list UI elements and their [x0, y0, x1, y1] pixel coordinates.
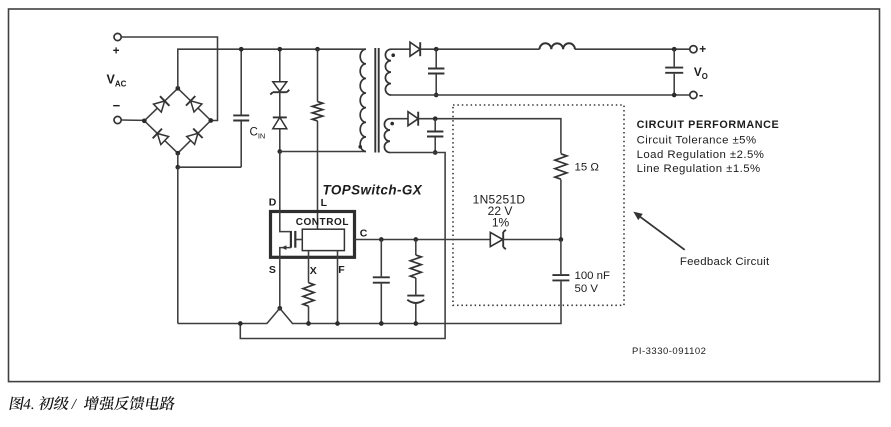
wire output cap1 top lead [435, 49, 437, 67]
label load regulation [637, 149, 765, 161]
wire CIN top lead [240, 49, 242, 114]
svg-text:1%: 1% [492, 215, 510, 229]
node output cap1 [434, 47, 439, 52]
diode bias rectifier [408, 112, 418, 126]
pin label C [360, 228, 368, 240]
transformer T1 bias winding [384, 119, 390, 153]
transformer bias phasing dot [390, 122, 394, 126]
label CIN [250, 127, 266, 141]
node C bypass cap [379, 237, 384, 242]
label Feedback Circuit [680, 256, 770, 268]
wire RC middle lead [415, 278, 417, 295]
label 15 ohm [575, 162, 600, 174]
wire MOSFET source lead [280, 248, 291, 259]
svg-text:L: L [321, 197, 328, 209]
node clamp at +DC rail [277, 47, 282, 52]
node Vo cap bottom [672, 93, 677, 98]
node bridge right [208, 118, 213, 123]
node RC at source rail [413, 321, 418, 326]
terminal AC - input [113, 98, 122, 124]
label VAC [107, 73, 127, 89]
transformer T1 primary winding [360, 49, 366, 151]
svg-text:15 Ω: 15 Ω [575, 162, 600, 174]
wire secondary top lead [391, 48, 410, 50]
wire bias winding bottom lead [390, 152, 435, 154]
wire L pin lead [317, 121, 319, 229]
label CIRCUIT PERFORMANCE [637, 119, 780, 131]
capacitor C-pin bypass [373, 277, 390, 282]
wire bias cap top lead [434, 119, 436, 131]
svg-text:VO: VO [694, 65, 708, 81]
wire return node to CIN bottom [178, 166, 241, 168]
wire AC+ to bridge right node [121, 37, 217, 121]
terminal Vo + [690, 42, 706, 56]
transformer T1 secondary winding [385, 49, 391, 95]
wire F pin lead [337, 251, 339, 324]
wire D pin lead [280, 152, 290, 232]
node bridge top [175, 86, 180, 91]
svg-text:CONTROL: CONTROL [296, 217, 349, 228]
transformer primary phasing dot [358, 145, 362, 149]
svg-text:X: X [310, 265, 317, 277]
wire clamp middle [279, 92, 281, 117]
label line regulation [637, 163, 761, 175]
label PI-3330-091102 [632, 346, 706, 357]
resistor X external current limit [303, 283, 314, 306]
pin label D [269, 196, 277, 208]
wire bridge top node to +DC rail [178, 49, 366, 88]
svg-text:Load Regulation ±2.5%: Load Regulation ±2.5% [637, 149, 765, 161]
pin label L [321, 197, 328, 209]
wire primary bottom stub [365, 151, 367, 153]
label TOPSwitch-GX [323, 183, 423, 198]
diode bridge D4 (bottom-right arm) [187, 129, 203, 145]
diode output rectifier [410, 42, 420, 56]
node bypass at source rail [379, 321, 384, 326]
wire CIN bottom lead [240, 121, 242, 167]
svg-text:TOPSwitch-GX: TOPSwitch-GX [323, 183, 423, 198]
wire MOSFET gate to control [296, 239, 302, 241]
wire clamp node to primary bottom [280, 151, 366, 153]
control block inner box [302, 229, 344, 250]
wire bias cap bottom lead [434, 137, 436, 152]
node return junction [175, 165, 180, 170]
diode clamp blocking [273, 117, 287, 128]
op-amp U1 TOPSwitch-GX body [271, 212, 355, 258]
label CONTROL [296, 217, 349, 228]
wire bias top lead [390, 118, 408, 120]
node bias cap bottom [433, 150, 438, 155]
node bias return at source rail [238, 321, 243, 326]
wire bridge bottom to lower node [177, 153, 179, 167]
wire bottom source rail left [178, 323, 268, 325]
capacitor 100nF 50V [552, 275, 569, 280]
caption figure title [9, 396, 176, 410]
wire 15ohm to node [560, 180, 562, 240]
wire Vo cap top lead [673, 49, 675, 66]
resistor RC snub [410, 255, 421, 278]
svg-text:−: − [113, 98, 121, 113]
wire bottom source rail right [292, 281, 561, 323]
capacitor CIN [233, 115, 249, 120]
wire output cap1 bottom lead [435, 74, 437, 95]
transistor Q1 MOSFET gate bar [294, 231, 296, 248]
wire bypass cap top lead [380, 240, 382, 277]
node C RC branch [413, 237, 418, 242]
svg-text:C: C [360, 228, 368, 240]
wire AC- to bridge left node [121, 119, 144, 121]
capacitor RC polarized [407, 296, 424, 303]
wire bias return [240, 153, 445, 339]
feedback arrow [633, 212, 684, 250]
wire output to inductor [420, 48, 539, 50]
transistor Q1 MOSFET channel bar [290, 231, 292, 248]
pin label F [338, 264, 345, 276]
node bridge left [142, 118, 147, 123]
wire S pin lead [279, 259, 281, 309]
diode bridge D3 (bottom-left arm) [153, 129, 169, 145]
resistor line-sense on L [312, 102, 322, 121]
wire X pin lead [308, 251, 310, 283]
label circuit tolerance [637, 135, 757, 147]
pin label X [310, 265, 317, 277]
node CIN at +DC rail [239, 47, 244, 52]
svg-text:VAC: VAC [107, 73, 127, 89]
node X at source rail [306, 321, 311, 326]
node S caret apex [277, 306, 282, 311]
node output cap1 bottom [434, 93, 439, 98]
label 1N5251D 22V 1% [473, 193, 526, 230]
wire inductor to + terminal [575, 48, 690, 50]
wire RC cap bottom lead [415, 303, 417, 323]
node clamp/drain junction [277, 149, 282, 154]
node F at source rail [335, 321, 340, 326]
svg-text:Line Regulation ±1.5%: Line Regulation ±1.5% [637, 163, 761, 175]
feedback dotted box [453, 105, 624, 305]
label 100nF 50V [575, 270, 611, 295]
svg-text:S: S [269, 264, 276, 276]
svg-text:50 V: 50 V [575, 283, 599, 295]
terminal Vo - [690, 87, 703, 102]
svg-text:-: - [699, 87, 703, 102]
wire bridge arms [144, 88, 211, 153]
capacitor output C1 [428, 69, 444, 74]
svg-text:+: + [113, 46, 120, 58]
node bias cap top [433, 116, 438, 121]
node bridge bottom [175, 151, 180, 156]
wire left return down [177, 167, 179, 323]
wire S caret legs [267, 308, 293, 323]
wire secondary return [391, 94, 690, 96]
resistor 15 ohm [555, 154, 567, 179]
node L resistor at +DC rail [315, 47, 320, 52]
wire Vo cap bottom lead [673, 74, 675, 95]
svg-text:Circuit Tolerance ±5%: Circuit Tolerance ±5% [637, 135, 757, 147]
svg-text:CIN: CIN [250, 127, 266, 141]
wire X resistor bottom lead [308, 306, 310, 323]
label VO [694, 65, 708, 81]
svg-text:D: D [269, 196, 277, 208]
wire bypass cap bottom lead [380, 284, 382, 324]
capacitor bias [427, 132, 443, 137]
svg-text:F: F [338, 264, 345, 276]
diode bridge D1 (left-top arm) [154, 96, 170, 112]
wire clamp top lead [279, 49, 281, 81]
transformer secondary phasing dot [391, 53, 395, 57]
wire RC resistor top lead [415, 240, 417, 256]
zener 1N5251D [490, 230, 506, 249]
svg-text:PI-3330-091102: PI-3330-091102 [632, 346, 706, 357]
svg-text:+: + [699, 42, 706, 56]
diode bridge D2 (right-top arm) [186, 96, 202, 112]
transistor Q1 source arrow [282, 245, 287, 250]
terminal AC + input [113, 33, 122, 57]
zener clamp VR1 [270, 82, 289, 95]
wire C pin line [355, 239, 492, 241]
svg-text:100 nF: 100 nF [575, 270, 611, 282]
wire zener to node [503, 239, 561, 241]
capacitor output CO [665, 68, 683, 73]
svg-text:Feedback Circuit: Feedback Circuit [680, 256, 770, 268]
inductor output post-filter [540, 43, 575, 49]
pin label S [269, 264, 276, 276]
wire node to 100nF [560, 240, 562, 275]
wire bias diode to 15ohm [418, 119, 561, 154]
wire clamp bottom lead [279, 129, 281, 152]
node feedback divider [559, 237, 564, 242]
transformer core [375, 48, 378, 153]
wire L resistor top lead [317, 49, 319, 101]
node Vo cap top [672, 47, 677, 52]
svg-text:CIRCUIT PERFORMANCE: CIRCUIT PERFORMANCE [637, 119, 780, 131]
